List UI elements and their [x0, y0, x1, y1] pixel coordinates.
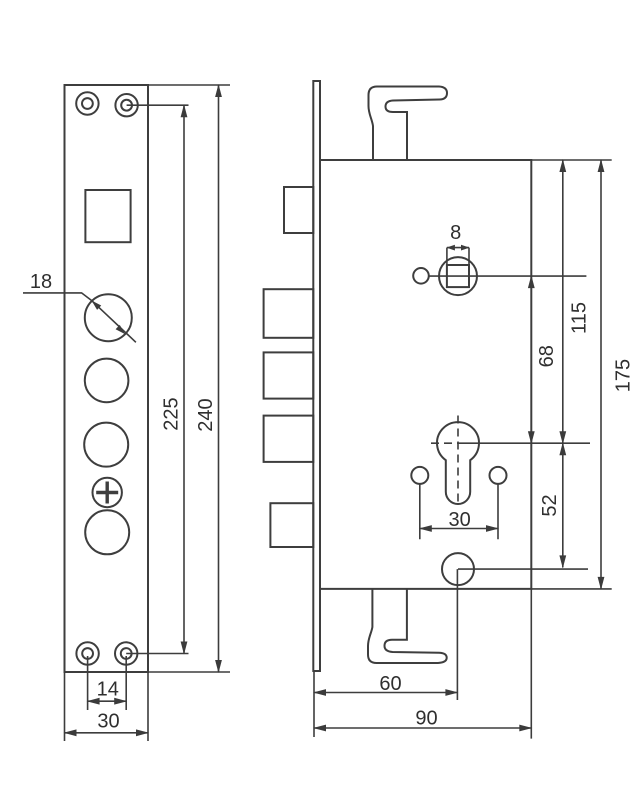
arrow 175 down [598, 577, 605, 590]
bottom hook bolt [368, 589, 447, 663]
svg-text:240: 240 [195, 398, 217, 431]
bottom circle hole [442, 553, 474, 585]
screw hole top-left inner [82, 98, 93, 109]
extension top edge right [531, 159, 611, 161]
fixing holes extension lines [420, 484, 498, 539]
lock body outline [320, 160, 531, 589]
hole 18mm [85, 294, 132, 341]
centerlines for cylinder [431, 416, 458, 507]
arrow 68 down [528, 431, 535, 444]
svg-text:115: 115 [569, 302, 591, 334]
fixing hole right [490, 467, 507, 484]
extension line from bottom-right screw [126, 653, 188, 655]
arrow 175 up [598, 159, 605, 172]
bottom bolt [270, 503, 313, 547]
svg-text:90: 90 [415, 708, 437, 730]
svg-text:175: 175 [613, 359, 633, 392]
hole 2 [85, 359, 129, 403]
svg-text:30: 30 [97, 711, 119, 733]
diameter line 18 [92, 301, 136, 343]
extension line from top-right screw [127, 104, 189, 106]
svg-text:30: 30 [448, 509, 470, 531]
square hole [85, 190, 130, 242]
leader 18 [23, 293, 92, 301]
arrow 240 bottom [215, 660, 222, 673]
svg-text:14: 14 [97, 679, 119, 701]
screw extension lines for 14 [88, 656, 127, 710]
cross screw plus [96, 482, 118, 504]
dim line 60 [314, 692, 457, 694]
screw hole top-right inner [121, 100, 132, 111]
screw hole top-right outer [115, 94, 137, 116]
screw hole bottom-right outer [115, 642, 137, 664]
dimension graphics: side view [314, 160, 612, 739]
extension lines for 30 [65, 672, 149, 741]
extension strip left bottom [313, 671, 315, 737]
dim line 175 [600, 160, 602, 589]
svg-text:60: 60 [379, 673, 401, 695]
arrow 225 bottom [181, 642, 188, 655]
cylinder horizontal centerline dashed [431, 442, 458, 444]
cylinder hole profile [437, 422, 479, 504]
arrow d18 lower [116, 325, 128, 337]
faceplate front view outline [65, 85, 149, 672]
svg-text:8: 8 [450, 222, 461, 244]
arrow 240 top [215, 84, 222, 97]
fixing hole left [411, 467, 428, 484]
spindle follower circle [439, 257, 477, 295]
arrow 90 left [313, 725, 326, 732]
follower small hole [413, 268, 429, 284]
extension line top edge [148, 84, 230, 86]
svg-text:68: 68 [536, 345, 558, 367]
screw hole top-left outer [76, 92, 98, 114]
arrow d18 upper [89, 298, 101, 310]
deadbolt 2 [264, 352, 314, 398]
extension body right bottom [530, 589, 532, 739]
extension cylinder center bottom [456, 569, 458, 700]
arrow 30cyl left [419, 525, 432, 532]
arrow 8 right [461, 245, 470, 251]
dim line 8 [447, 247, 469, 249]
svg-text:225: 225 [161, 397, 183, 430]
dim line 225 [183, 105, 185, 653]
extension bottom edge right [531, 588, 611, 590]
hole 3 [84, 423, 128, 467]
dim line 240 [218, 85, 220, 672]
screw hole bottom-left inner [82, 648, 93, 659]
arrow 60 left [313, 689, 326, 696]
faceplate side strip [313, 81, 320, 671]
arrow 52 down [559, 555, 566, 568]
top hook bolt [369, 87, 448, 160]
dim line 115-52 [562, 160, 564, 567]
arrow 52 up [559, 442, 566, 455]
dimension graphics: left view [23, 85, 230, 741]
hole 4 [85, 510, 129, 554]
dim line 30 [65, 732, 149, 734]
deadbolt 1 [264, 289, 314, 338]
deadbolt 3 [264, 416, 314, 462]
arrow 30 right [136, 729, 149, 736]
dim line 90 [314, 727, 531, 729]
dim line 14 [88, 700, 127, 702]
cylinder vertical centerline dashed [457, 416, 459, 507]
cross screw circle [93, 478, 122, 507]
svg-text:52: 52 [539, 494, 561, 516]
extension line bottom edge [65, 671, 231, 673]
screw hole bottom-left outer [76, 642, 98, 664]
arrow 60 right [445, 689, 458, 696]
arrow 225 top [181, 104, 188, 117]
latch bolt top [284, 187, 313, 233]
arrow 90 right [519, 725, 532, 732]
arrow 115 up [559, 159, 566, 172]
side view [264, 81, 532, 671]
arrow 30cyl right [486, 525, 499, 532]
dim line 30 cylinder [420, 528, 498, 530]
arrow 115 down [559, 431, 566, 444]
arrow 14 right [114, 698, 127, 705]
extension follower centerline [429, 275, 587, 277]
arrow 14 left [87, 698, 100, 705]
dim 8 extension lines [447, 248, 469, 265]
extension cylinder centerline right [458, 442, 590, 444]
arrow 8 left [446, 245, 455, 251]
arrow 68 up [528, 275, 535, 288]
spindle square 8mm [447, 265, 469, 287]
screw hole bottom-right inner [121, 648, 132, 659]
arrow 30 left [64, 729, 77, 736]
svg-text:18: 18 [30, 271, 52, 293]
extension bottom circle centerline [458, 568, 588, 570]
